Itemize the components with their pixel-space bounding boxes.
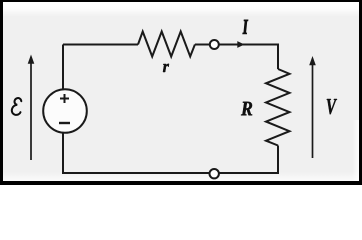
resistor R: [266, 69, 290, 146]
label V: [327, 99, 337, 114]
circuit schematic: EMF source with internal resistance r driving load R: [0, 0, 362, 185]
wire top segment from source to resistor r: [63, 44, 138, 46]
voltage V arrow (upward, right side): [309, 56, 316, 158]
node A (top output terminal, open circle): [210, 40, 219, 49]
label r: [163, 64, 169, 72]
wire from node A to top-right corner down to resistor R: [219, 45, 278, 70]
label R: [241, 102, 252, 116]
frame border: [0, 0, 362, 2]
current I arrowhead on top wire: [237, 41, 244, 48]
source polarity plus sign: [60, 94, 69, 103]
label I: [243, 20, 248, 34]
EMF arrow (upward, left of source): [28, 55, 35, 161]
node B (bottom terminal, open circle): [210, 169, 219, 178]
wire from source positive terminal up to top-left corner: [62, 45, 64, 90]
label script epsilon (EMF): [12, 98, 21, 115]
source polarity minus sign: [59, 122, 70, 124]
wire from resistor R down, along bottom, up to source negative terminal: [63, 133, 278, 173]
EMF source (circle symbol): [43, 89, 87, 133]
resistor r: [138, 32, 195, 57]
wire from resistor r to node A: [195, 44, 210, 46]
